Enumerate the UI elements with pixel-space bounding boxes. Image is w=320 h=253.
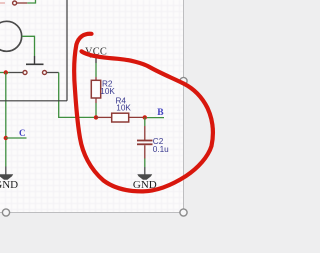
selection handle bottom-right (180, 209, 187, 216)
svg-text:10K: 10K (100, 87, 115, 96)
wire green VCC to R2 (95, 63, 97, 77)
wire green below node B (144, 117, 146, 126)
canvas border bottom (0, 212, 184, 214)
switch S1 actuator stem (34, 56, 36, 64)
capacitor C2 top plate (137, 140, 153, 142)
black box bottom edge (0, 100, 67, 102)
switch left pin (9, 72, 23, 74)
schematic canvas background (0, 0, 184, 213)
capacitor C2 bottom plate (137, 143, 153, 145)
switch right contact (43, 71, 47, 75)
R2 bottom lead (95, 98, 97, 103)
R4 right lead (129, 116, 145, 118)
canvas border right (183, 0, 185, 213)
GND lead dark left (5, 167, 7, 176)
svg-text:GND: GND (0, 179, 18, 191)
wire green stub node C (6, 137, 27, 139)
wire (faint leftover, top-left) (0, 2, 5, 4)
circle component (0, 21, 22, 51)
junction dot node B (143, 115, 147, 119)
R4 left lead (96, 116, 112, 118)
VCC symbol stem (95, 57, 97, 63)
wire green stub node B (147, 117, 164, 119)
wire green from switch down and right to R2 node (59, 73, 95, 118)
red marker annotation loop (74, 34, 213, 192)
wire green R2 to node (95, 103, 97, 117)
svg-text:C: C (19, 128, 26, 138)
junction dot node C (4, 136, 8, 140)
ground symbol right (137, 174, 152, 180)
switch S1 actuator bar (26, 63, 44, 65)
junction dot left (4, 70, 8, 74)
selection handle bottom-left (2, 209, 9, 216)
selection handle right-middle (180, 77, 187, 84)
resistor R2 body (91, 80, 100, 98)
ground symbol left (0, 174, 13, 180)
R2 top lead (95, 77, 97, 80)
switch right pin (47, 72, 59, 74)
svg-text:0.1u: 0.1u (153, 145, 169, 154)
C2 bottom lead (144, 145, 146, 158)
wire green from circle to switch stem (22, 36, 35, 56)
C2 top lead (144, 126, 146, 140)
wire maroon from terminal (17, 2, 28, 4)
GND lead dark (144, 167, 146, 175)
junction dot R2/R4 (94, 115, 98, 119)
wire green to top edge (27, 0, 35, 3)
switch left contact (23, 71, 27, 75)
wire green entering left (0, 72, 10, 74)
svg-text:10K: 10K (116, 104, 131, 113)
wire green C2 to GND (144, 159, 146, 168)
VCC symbol bar (90, 56, 103, 58)
resistor R4 body (112, 113, 129, 122)
wire green vertical to left GND (5, 73, 7, 167)
svg-text:B: B (157, 108, 164, 118)
terminal circle top-left (13, 1, 17, 5)
black box right edge (66, 0, 68, 101)
